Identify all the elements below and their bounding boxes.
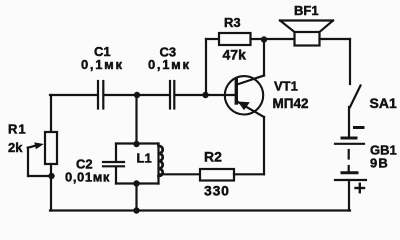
- svg-text:VT1: VT1: [274, 79, 298, 94]
- svg-text:R3: R3: [224, 15, 241, 30]
- svg-text:0,1мк: 0,1мк: [81, 57, 124, 72]
- svg-text:2k: 2k: [8, 140, 23, 155]
- svg-text:SA1: SA1: [370, 95, 397, 111]
- svg-text:R2: R2: [204, 149, 222, 165]
- svg-text:BF1: BF1: [294, 3, 319, 18]
- svg-text:47k: 47k: [223, 47, 247, 63]
- svg-text:L1: L1: [137, 151, 152, 166]
- svg-text:0,1мк: 0,1мк: [148, 57, 191, 72]
- svg-text:330: 330: [204, 183, 230, 199]
- svg-text:МП42: МП42: [273, 96, 309, 111]
- svg-text:0,01мк: 0,01мк: [65, 170, 110, 185]
- svg-text:R1: R1: [8, 122, 27, 137]
- svg-text:9В: 9В: [370, 156, 389, 171]
